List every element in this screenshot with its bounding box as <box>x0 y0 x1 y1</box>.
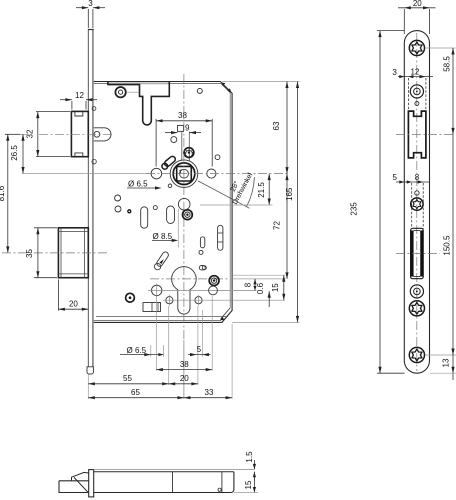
svg-text:65: 65 <box>131 388 140 397</box>
svg-text:15: 15 <box>271 283 280 292</box>
deadbolt tail guide box <box>143 303 161 312</box>
svg-text:0.6: 0.6 <box>256 282 265 294</box>
latch tail pin <box>94 131 100 137</box>
dimension 72 <box>286 174 288 279</box>
section divider 1 <box>172 472 174 493</box>
slot left column <box>141 207 148 228</box>
bottom dim ext verticals <box>151 296 232 399</box>
follower channel right <box>188 132 190 161</box>
small hole above latch cutout <box>415 102 419 106</box>
deadbolt inner bottom line <box>58 273 88 275</box>
dimension 38 (top) <box>156 119 212 167</box>
small hole left of channel <box>171 137 177 143</box>
dimension 20 (plate width) <box>398 8 436 34</box>
plate centerline <box>416 33 418 371</box>
deadbolt inner top line <box>58 231 88 233</box>
top flange <box>108 82 169 125</box>
section detail circle <box>218 488 221 491</box>
dimension 63 <box>286 82 288 174</box>
svg-text:38: 38 <box>180 360 189 369</box>
case bottom inner line <box>94 319 221 321</box>
svg-text:165: 165 <box>285 187 294 201</box>
latch tail inside case <box>94 128 111 141</box>
follower inner notch <box>180 170 182 173</box>
dimension 9 <box>165 132 201 134</box>
torx screw right of cylinder <box>209 276 219 286</box>
plate outline <box>404 31 429 374</box>
small slot right of center <box>200 237 204 248</box>
svg-text:150.5: 150.5 <box>443 235 452 256</box>
chamfer top-right inner <box>221 84 230 93</box>
svg-text:26.5: 26.5 <box>10 145 19 161</box>
dimension 3 (faceplate thickness) <box>76 8 105 28</box>
slot mid column <box>167 206 175 223</box>
dimension 55 + 20 row <box>88 383 168 385</box>
small hole below follower-left <box>168 184 172 188</box>
dimension 26.5 <box>22 134 146 173</box>
fixing-hole row line <box>163 299 285 301</box>
svg-text:1.5: 1.5 <box>245 451 254 463</box>
28 degree arc <box>246 177 254 207</box>
svg-text:32: 32 <box>25 129 34 138</box>
dimension 1.5 <box>253 460 255 469</box>
vertical mark through left hole <box>156 284 158 298</box>
small dims 8 / 0.6 / 15 ext lines <box>220 275 286 290</box>
faceplate (stulp) front line <box>87 30 89 367</box>
svg-text:8: 8 <box>415 173 420 182</box>
svg-text:12: 12 <box>410 67 419 76</box>
small hole near right edge <box>215 155 220 160</box>
svg-text:72: 72 <box>273 221 282 230</box>
latch axis right view <box>396 133 455 135</box>
svg-text:5: 5 <box>392 173 397 182</box>
spring lever <box>156 251 170 268</box>
dimension 81.6 <box>5 134 20 253</box>
case bottom plate line <box>96 316 228 318</box>
top screw axis ext <box>426 47 456 49</box>
svg-text:58.5: 58.5 <box>443 56 452 72</box>
stulp section bar <box>89 470 94 497</box>
bottom screw axis ext <box>426 354 456 356</box>
dimension 32 (latch height) <box>36 112 70 157</box>
svg-text:20: 20 <box>180 374 189 383</box>
fixing hole right with cross <box>195 297 202 304</box>
tall slot right (3 segments) <box>218 225 223 250</box>
hole left of follower (6.5) <box>151 168 162 179</box>
euro cylinder profile <box>172 267 197 314</box>
hole right of follower <box>207 169 216 178</box>
svg-text:9: 9 <box>185 123 190 132</box>
dimension 5 (bottom) <box>188 354 211 356</box>
main vertical centerline <box>183 74 185 340</box>
small hole between slots <box>153 206 157 210</box>
dimension 8 <box>254 279 256 291</box>
hole below follower (8.5) <box>178 198 190 210</box>
centerline extension to bottom dims <box>183 340 185 399</box>
case section top line <box>94 471 234 473</box>
rivet screw bottom-left <box>126 293 135 302</box>
latch wedge <box>59 481 89 493</box>
tilted slot upper-left of follower <box>163 155 176 167</box>
deadbolt axis <box>2 252 108 254</box>
28 degree leg <box>198 181 250 208</box>
faceplate bottom foot <box>87 367 93 374</box>
lock case outline <box>94 82 232 323</box>
svg-text:63: 63 <box>272 121 281 130</box>
small thick ring below slot <box>162 163 168 169</box>
rivet screw top-left <box>115 87 125 97</box>
top flange bar shading <box>108 82 169 84</box>
cylinder axis <box>150 278 230 280</box>
ring screw lower <box>410 285 423 298</box>
torx screw lower-mid <box>409 301 424 316</box>
right ext line bottom <box>232 321 300 323</box>
section divider 2 <box>221 472 223 493</box>
svg-text:55: 55 <box>123 374 132 383</box>
case section bottom/right outline <box>94 472 234 493</box>
case right edge inner line <box>229 93 231 308</box>
deadbolt cutout right view <box>411 228 424 278</box>
svg-text:3: 3 <box>392 68 397 77</box>
svg-text:235: 235 <box>350 202 359 216</box>
small hole below slot <box>199 250 203 254</box>
rivet leader line <box>126 91 139 93</box>
right ext line top <box>222 81 300 83</box>
dimension 38 (bottom) <box>156 369 212 371</box>
svg-text:20: 20 <box>69 300 78 309</box>
deadbolt axis right view <box>396 253 440 255</box>
svg-text:5: 5 <box>197 345 202 354</box>
svg-text:81.6: 81.6 <box>0 185 6 201</box>
small hole above mid torx <box>415 191 419 195</box>
svg-text:21.5: 21.5 <box>257 182 266 198</box>
torx screw middle <box>411 198 423 210</box>
torx screw below follower <box>183 210 193 220</box>
follower axis line <box>146 173 289 175</box>
dimension 35 (deadbolt height) <box>34 228 57 278</box>
hole left of cylinder with cross <box>152 285 162 295</box>
dimension 165 <box>297 82 299 323</box>
hole-row line <box>148 289 256 291</box>
deadbolt inner left line <box>60 228 62 278</box>
follower channel left <box>181 132 183 161</box>
faceplate lug lower <box>92 159 96 163</box>
dimension 5 / 8 row <box>396 182 429 229</box>
dimension 13 <box>452 355 454 380</box>
dark mini ring <box>128 210 131 213</box>
dimension 20 (deadbolt throw) <box>58 280 88 311</box>
latch axis line <box>6 133 28 135</box>
torx screw top <box>409 40 424 55</box>
chamfer bottom-right arrowhead <box>220 317 225 321</box>
case section upper thin line <box>94 468 255 470</box>
follower inner circle <box>180 169 189 178</box>
small slot above right of cylinder <box>199 266 205 270</box>
torx screw bottom <box>409 347 424 362</box>
svg-text:8: 8 <box>244 282 253 287</box>
svg-text:13: 13 <box>442 358 451 367</box>
torx screw above follower <box>184 148 194 158</box>
dimension 15 (section) <box>253 472 255 493</box>
svg-text:38: 38 <box>178 111 187 120</box>
svg-text:Ø 8.5: Ø 8.5 <box>153 232 173 241</box>
svg-text:35: 35 <box>25 249 34 258</box>
two holes left middle <box>115 195 121 201</box>
case top edge inner line <box>94 83 222 85</box>
dimension 58.5 <box>452 48 454 134</box>
dimension 3 / 12 row <box>398 77 433 109</box>
chamfer bottom-right inner <box>221 308 231 319</box>
latch head bottom notch <box>75 153 83 157</box>
svg-text:Ø 6.5: Ø 6.5 <box>127 346 147 355</box>
svg-text:20: 20 <box>413 0 422 8</box>
faceplate top cap <box>88 29 94 31</box>
dimension 0.6 <box>268 291 270 307</box>
fixing hole left with cross <box>166 297 173 304</box>
chamfer top-right arrowheads <box>221 82 231 93</box>
latch head top notch <box>75 111 83 116</box>
dimension 65 + 33 row <box>88 397 184 399</box>
svg-text:3: 3 <box>88 0 93 8</box>
svg-text:Ø 6.5: Ø 6.5 <box>128 180 148 189</box>
follower nut main circle <box>173 163 195 185</box>
dimension 12 (latch width) <box>60 100 97 110</box>
svg-text:15: 15 <box>244 480 253 489</box>
ext line from 8.5 hole <box>177 209 179 248</box>
dimension 235 <box>377 31 405 374</box>
follower nut outer circle <box>170 160 198 188</box>
svg-text:12: 12 <box>75 91 84 100</box>
dimension 15 <box>283 275 285 300</box>
svg-text:33: 33 <box>205 388 214 397</box>
faceplate back line <box>92 30 94 367</box>
latch bolt head <box>71 111 88 156</box>
faceplate ext line to dims <box>87 374 89 399</box>
dimension 150.5 <box>452 134 454 355</box>
deadbolt inner right line <box>84 228 86 278</box>
hole below torx <box>209 286 218 295</box>
deadbolt head <box>58 228 88 278</box>
square hole above follower <box>178 125 184 131</box>
ring screw upper <box>410 85 423 98</box>
dimension 21.5 <box>200 174 273 205</box>
small hole top right <box>197 88 202 93</box>
latch cutout <box>408 111 426 158</box>
faceplate lug upper <box>92 107 96 111</box>
follower square <box>177 166 192 181</box>
